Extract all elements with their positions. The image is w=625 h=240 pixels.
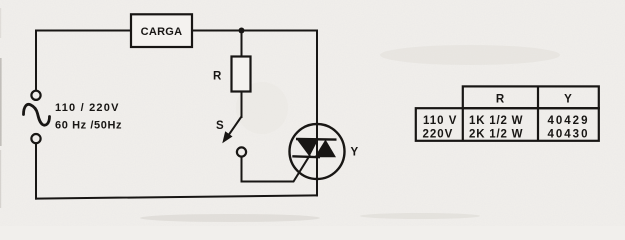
resistor R xyxy=(232,57,251,92)
svg-text:Y: Y xyxy=(564,94,572,106)
svg-text:110 V: 110 V xyxy=(423,115,457,127)
wire switch S to triac gate xyxy=(242,156,310,182)
wire resistor R to switch blade xyxy=(241,92,243,118)
svg-text:60 Hz /50Hz: 60 Hz /50Hz xyxy=(55,120,122,132)
table divider col1 xyxy=(462,108,464,141)
svg-text:1K 1/2 W: 1K 1/2 W xyxy=(469,115,523,127)
svg-text:CARGA: CARGA xyxy=(141,26,183,38)
svg-text:2K 1/2 W: 2K 1/2 W xyxy=(469,129,523,141)
table divider R/Y xyxy=(537,86,539,140)
wire top-left: left rail to CARGA xyxy=(36,30,131,32)
svg-text:R: R xyxy=(496,94,505,106)
wire bottom rail xyxy=(36,195,317,198)
svg-text:110 / 220V: 110 / 220V xyxy=(55,102,120,114)
node A junction dot xyxy=(239,28,245,34)
switch S blade xyxy=(222,117,241,144)
triac Y xyxy=(290,124,345,179)
switch S contact xyxy=(237,147,246,156)
svg-text:40430: 40430 xyxy=(548,129,590,141)
wire left rail bottom xyxy=(35,143,37,198)
svg-text:220V: 220V xyxy=(423,129,454,141)
table: component values xyxy=(416,86,599,140)
table body box xyxy=(416,108,599,141)
svg-text:Y: Y xyxy=(351,147,359,159)
wire node A to resistor R xyxy=(241,33,243,57)
svg-text:40429: 40429 xyxy=(548,115,590,127)
ac source V1 sine xyxy=(24,104,50,125)
svg-text:R: R xyxy=(213,71,222,83)
svg-text:S: S xyxy=(216,120,224,132)
wire left rail top xyxy=(35,31,37,91)
ac source V1 terminals xyxy=(31,91,40,100)
table header box xyxy=(463,86,599,108)
wire node A to triac MT2 corner xyxy=(242,31,318,125)
load box CARGA xyxy=(131,14,192,47)
wire triac MT1 to bottom rail xyxy=(316,179,318,195)
wire CARGA to node A xyxy=(193,30,242,32)
